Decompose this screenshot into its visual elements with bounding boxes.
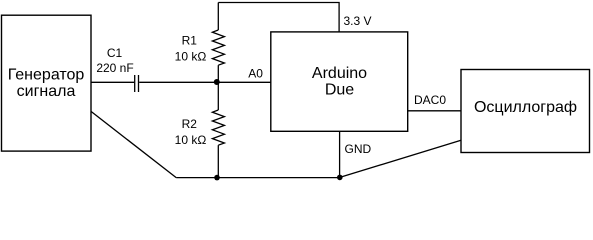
wire generator to C1 [91,81,134,83]
wire generator to ground diagonal [91,111,176,177]
svg-text:Arduino: Arduino [312,65,367,82]
wire C1 to Arduino A0 [139,81,271,83]
oscilloscope box [461,70,590,153]
svg-text:GND: GND [345,142,372,156]
signal generator box [2,15,92,151]
svg-text:Due: Due [325,82,354,99]
wire ground to oscilloscope diagonal [340,140,461,177]
svg-text:3.3 V: 3.3 V [344,14,372,28]
3.3V rail wire [218,3,339,32]
bottom junction node [214,175,220,181]
svg-text:R2: R2 [182,117,198,131]
GND wire [339,131,341,177]
resistor R2 [217,82,219,110]
svg-text:A0: A0 [248,66,263,80]
svg-text:сигнала: сигнала [17,83,76,100]
GND junction [337,175,343,181]
svg-text:220 nF: 220 nF [96,61,133,75]
svg-text:Осциллограф: Осциллограф [474,99,577,116]
svg-text:10 kΩ: 10 kΩ [175,50,207,64]
svg-text:DAC0: DAC0 [414,93,446,107]
resistor R1 [217,3,219,31]
bottom ground wire [176,177,340,179]
capacitor C1 [134,75,136,92]
svg-text:C1: C1 [107,46,123,60]
svg-text:10 kΩ: 10 kΩ [175,133,207,147]
node A0 junction [214,79,220,85]
svg-text:R1: R1 [182,34,198,48]
svg-text:Генератор: Генератор [8,66,85,83]
Arduino Due box [271,32,408,131]
DAC0 wire [408,110,461,112]
